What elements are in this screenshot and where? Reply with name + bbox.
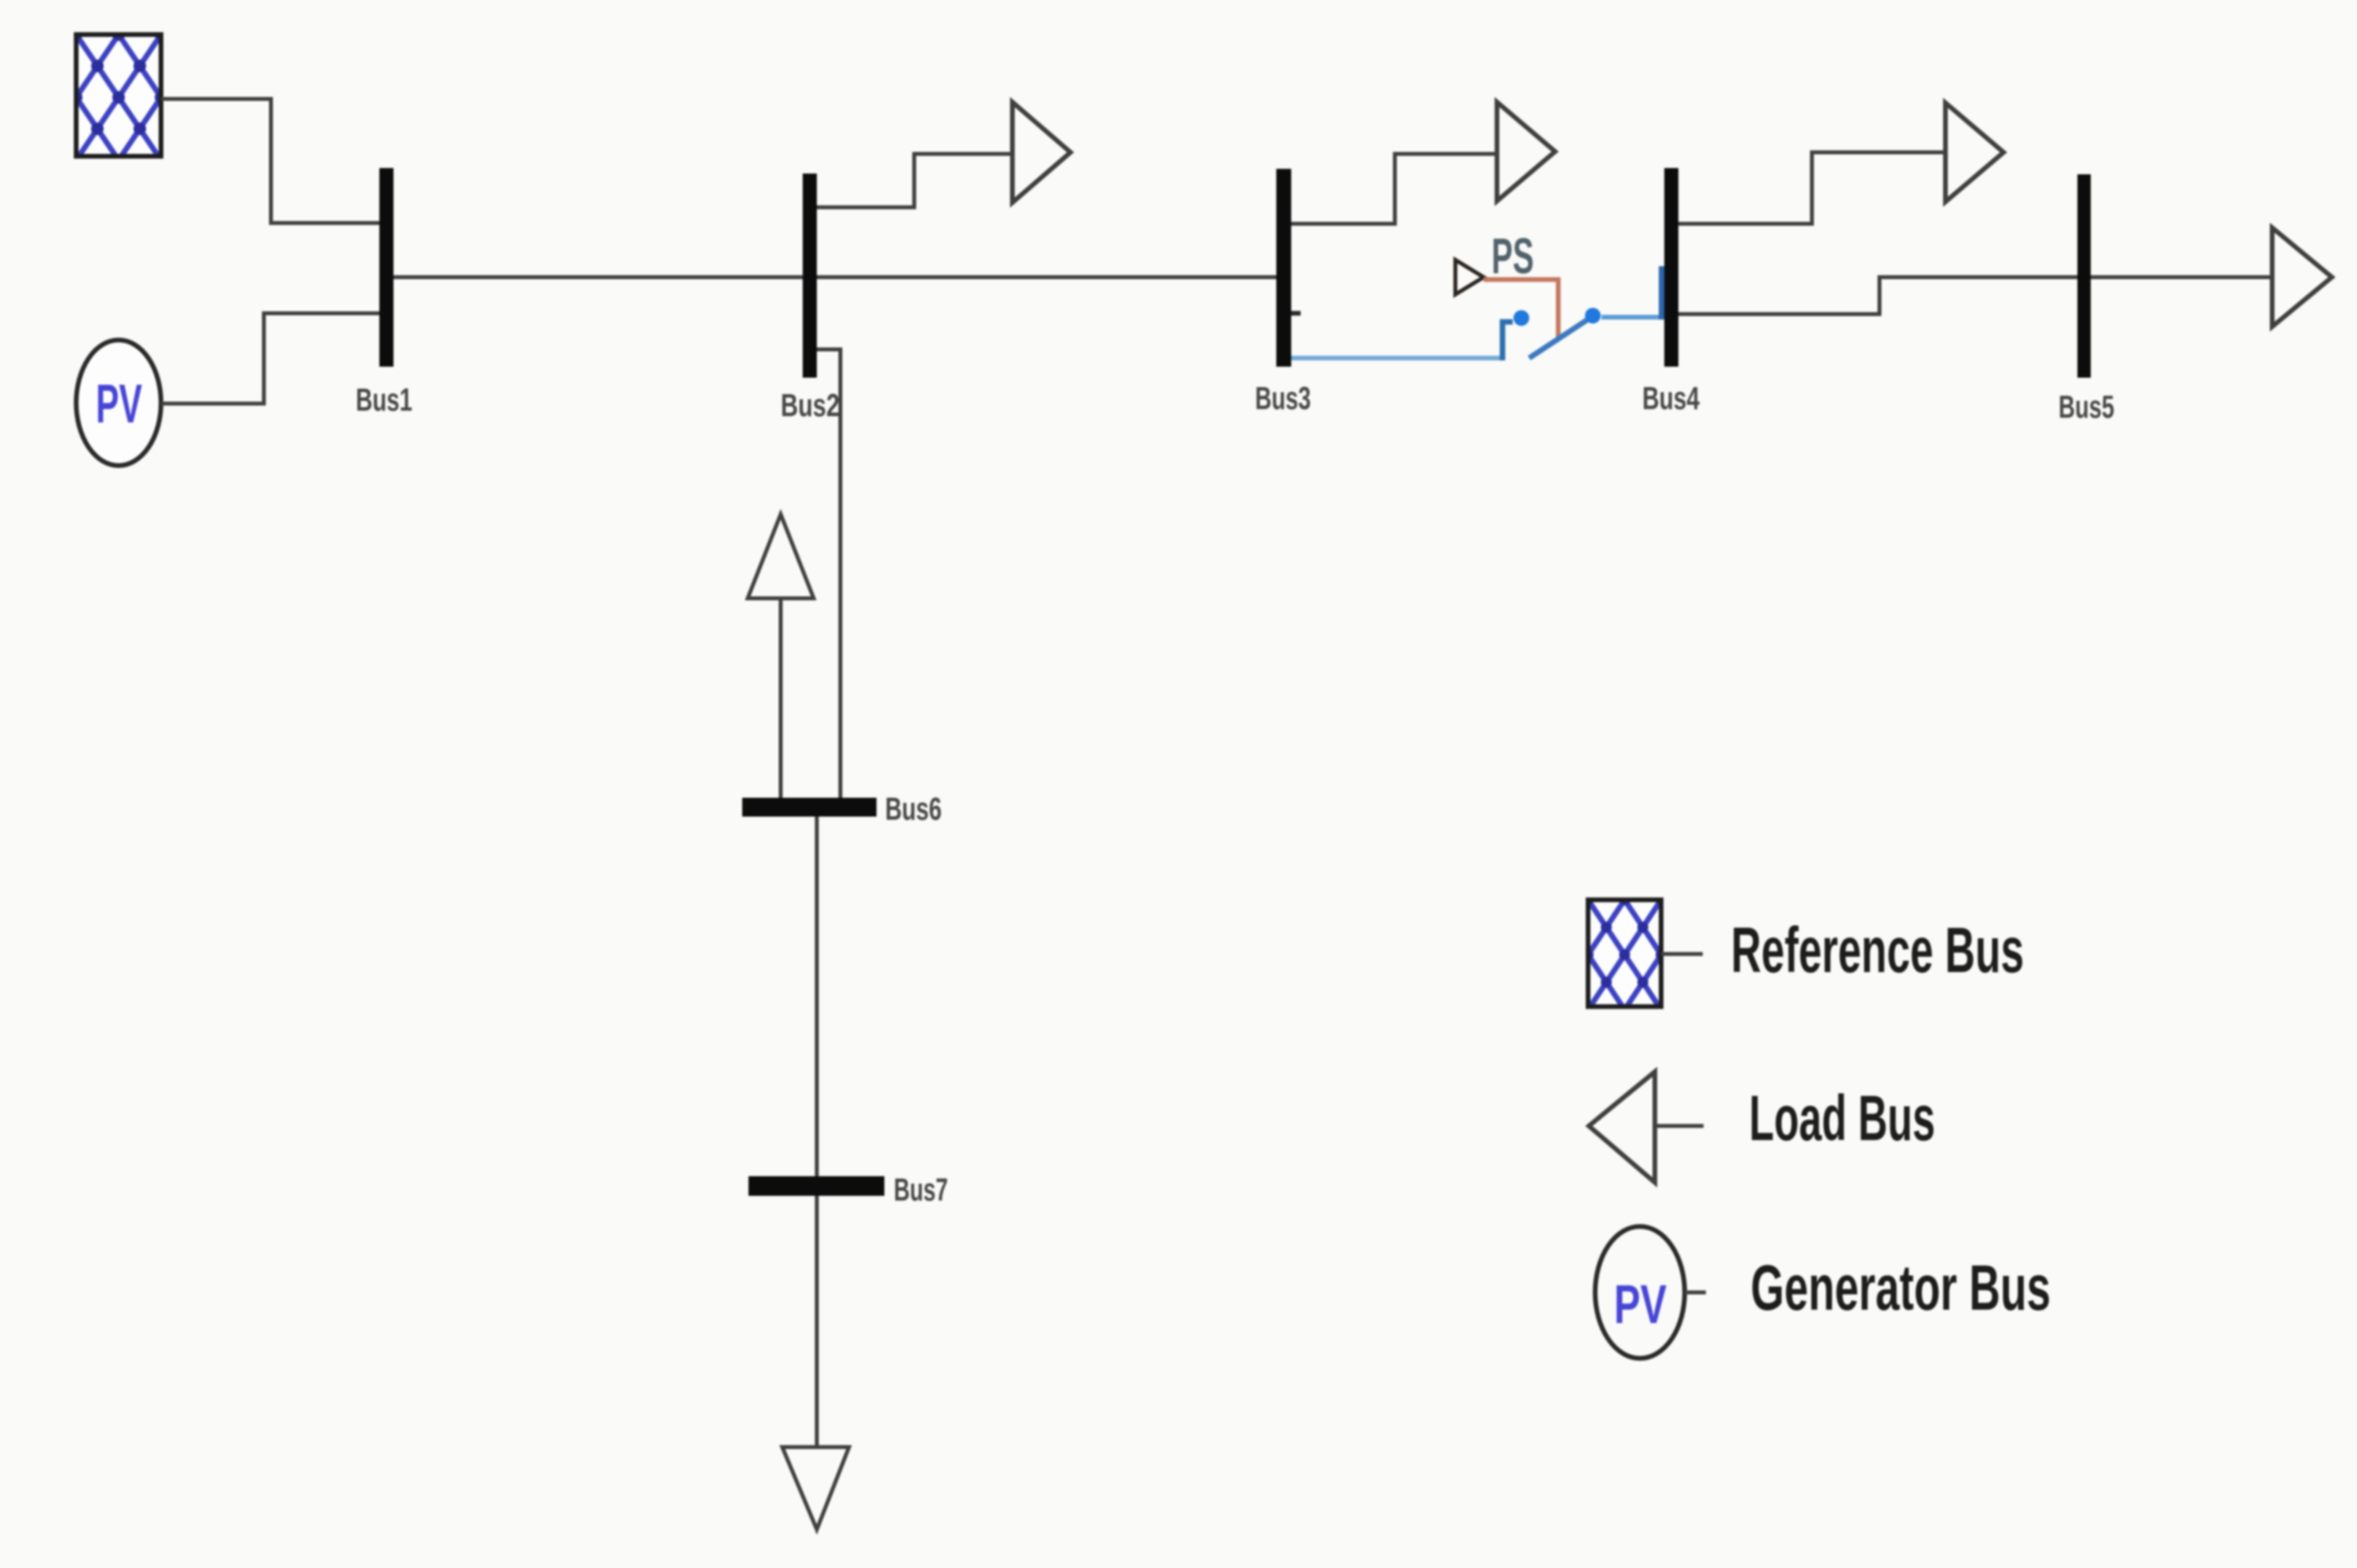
- svg-text:Load Bus: Load Bus: [1749, 1083, 1935, 1154]
- wire reference to Bus1: [161, 99, 379, 223]
- load arrow up at Bus6: [748, 514, 814, 598]
- legend reference bus symbol: [1588, 900, 1661, 1007]
- stub right of Bus3: [1291, 311, 1301, 316]
- wire Bus6 to Bus7: [815, 817, 819, 1176]
- load arrow right of Bus5: [2272, 228, 2332, 327]
- node switch contact left: [1513, 310, 1529, 326]
- PS control arrowhead: [1455, 260, 1484, 294]
- wire blue riser: [1502, 322, 1513, 360]
- wire Bus4 to Bus5 and beyond: [1678, 277, 2272, 314]
- bus Bus1: [379, 168, 393, 367]
- wire Bus4 load tap: [1678, 152, 1945, 224]
- svg-text:Bus1: Bus1: [356, 382, 412, 418]
- load arrow at Bus3: [1497, 102, 1555, 201]
- generator PV: [76, 340, 161, 466]
- node switch contact right: [1585, 308, 1601, 323]
- legend generator symbol: [1595, 1226, 1685, 1358]
- svg-text:PV: PV: [96, 373, 142, 434]
- bus Bus4: [1664, 168, 1678, 367]
- load arrow at Bus4: [1945, 103, 2004, 202]
- wire Bus3 load tap: [1291, 154, 1497, 224]
- svg-text:Generator Bus: Generator Bus: [1751, 1252, 2051, 1324]
- svg-text:Bus2: Bus2: [781, 387, 840, 423]
- bus Bus7: [748, 1176, 884, 1196]
- svg-text:PS: PS: [1491, 228, 1534, 284]
- svg-text:Bus7: Bus7: [894, 1171, 948, 1208]
- wire Bus2 load tap: [817, 154, 1012, 207]
- load arrow at Bus2: [1012, 102, 1071, 203]
- wire Bus7 down: [815, 1196, 819, 1447]
- legend generator stub wire: [1685, 1291, 1706, 1295]
- svg-text:Bus6: Bus6: [885, 791, 942, 827]
- bus Bus3: [1276, 169, 1291, 367]
- switch blade: [1529, 317, 1591, 358]
- bus Bus6: [742, 798, 877, 817]
- bus Bus2: [803, 174, 817, 378]
- load arrow down below Bus7: [782, 1447, 849, 1530]
- bus Bus5: [2077, 174, 2091, 378]
- svg-text:Reference Bus: Reference Bus: [1731, 915, 2024, 986]
- svg-text:Bus3: Bus3: [1255, 380, 1311, 416]
- wire PS red branch: [1484, 280, 1558, 338]
- wire arrow stem to Bus6: [779, 598, 783, 798]
- reference bus symbol: [76, 35, 161, 156]
- svg-text:Bus5: Bus5: [2059, 389, 2114, 425]
- legend load arrow: [1589, 1072, 1655, 1182]
- legend load stub wire: [1652, 1124, 1704, 1128]
- wire blue from Bus3: [1291, 356, 1502, 360]
- legend reference stub wire: [1661, 952, 1703, 956]
- svg-text:PV: PV: [1614, 1274, 1667, 1335]
- wire blue to Bus4: [1601, 315, 1659, 320]
- wire PV to Bus1: [161, 313, 379, 404]
- wire blue along Bus4 edge: [1659, 266, 1665, 320]
- svg-text:Bus4: Bus4: [1642, 380, 1700, 416]
- wire main line Bus1 to Bus3: [386, 276, 1283, 280]
- wire Bus2 to Bus6: [817, 349, 840, 798]
